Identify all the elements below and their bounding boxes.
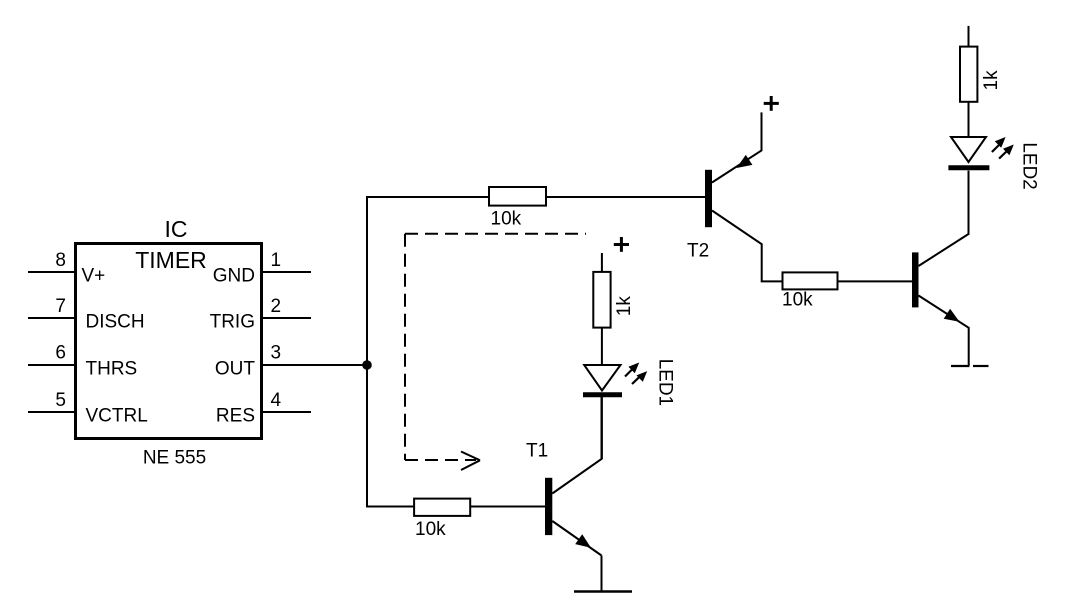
pin 3 OUT wire bbox=[261, 364, 367, 366]
svg-text:GND: GND bbox=[213, 266, 255, 287]
resistor R5 1k (LED2 branch) bbox=[960, 47, 977, 102]
R3 value 1k (rotated) bbox=[614, 296, 635, 317]
op-amp/IC U1 NE555 body box bbox=[76, 244, 262, 439]
IC label IC bbox=[165, 216, 188, 242]
R5 value 1k (rotated) bbox=[981, 70, 1002, 91]
T1 emitter wire bbox=[552, 521, 601, 556]
wire bottom horizontal to T1 base bbox=[366, 506, 545, 508]
pin 8 name V+ bbox=[82, 266, 106, 287]
resistor R2 10k (bottom) bbox=[414, 499, 470, 516]
pin 2 name TRIG bbox=[210, 312, 255, 333]
pin 5 name VCTRL bbox=[86, 406, 148, 427]
T3 emitter arrow bbox=[944, 309, 960, 322]
wire top horizontal to T2 base bbox=[366, 196, 705, 198]
LED1 label (rotated) bbox=[655, 359, 676, 407]
resistor R4 10k (T2 collector) bbox=[783, 272, 838, 289]
resistor R1 10k (top) bbox=[489, 187, 546, 206]
svg-text:2: 2 bbox=[271, 296, 282, 317]
pin 7 stub bbox=[28, 317, 76, 319]
pin 3 name OUT bbox=[215, 359, 256, 380]
LED2 emission arrow 2 bbox=[999, 145, 1014, 159]
ground under T1 bbox=[574, 590, 632, 593]
LED1 emission arrow 2 bbox=[632, 371, 647, 384]
T2 emitter wire bbox=[712, 112, 762, 182]
LED2 triangle bbox=[951, 137, 986, 162]
T1 emitter vertical wire bbox=[601, 556, 603, 593]
svg-text:LED2: LED2 bbox=[1019, 142, 1040, 190]
svg-text:V+: V+ bbox=[82, 266, 106, 287]
dashed path arrowhead bbox=[461, 452, 480, 471]
wire R5 to LED2 bbox=[968, 102, 970, 138]
svg-text:1k: 1k bbox=[981, 70, 1002, 91]
T2 label bbox=[687, 240, 709, 261]
T2 collector wire bbox=[712, 211, 782, 282]
plus supply symbol above LED1 branch bbox=[614, 237, 629, 252]
pin 7 name DISCH bbox=[86, 312, 145, 333]
pin 4 number bbox=[271, 390, 282, 411]
transistor T3 bar bbox=[912, 252, 919, 307]
pin 2 stub bbox=[261, 317, 311, 319]
LED2 cathode bar bbox=[948, 165, 989, 170]
svg-text:T1: T1 bbox=[526, 441, 548, 462]
svg-text:10k: 10k bbox=[415, 519, 446, 540]
svg-text:T2: T2 bbox=[687, 240, 709, 261]
wire vertical from node bbox=[366, 196, 368, 508]
svg-text:TRIG: TRIG bbox=[210, 312, 255, 333]
pin 4 stub bbox=[261, 411, 311, 413]
T3 emitter wire bbox=[919, 296, 969, 367]
T3 collector wire bbox=[919, 234, 969, 266]
pin 1 stub bbox=[261, 271, 311, 273]
transistor T2 bar bbox=[705, 170, 712, 227]
svg-text:TIMER: TIMER bbox=[135, 247, 207, 273]
svg-text:5: 5 bbox=[55, 390, 66, 411]
LED1 cathode bar bbox=[583, 392, 622, 397]
pin 6 stub bbox=[28, 364, 76, 366]
R4 value 10k bbox=[782, 290, 813, 311]
pin 1 name GND bbox=[213, 266, 255, 287]
resistor R3 1k (LED1 branch) bbox=[593, 272, 610, 328]
wire top stub above LED2 1k bbox=[968, 26, 970, 47]
svg-text:OUT: OUT bbox=[215, 359, 256, 380]
svg-text:6: 6 bbox=[55, 343, 66, 364]
IC value NE 555 bbox=[143, 448, 206, 469]
svg-text:DISCH: DISCH bbox=[86, 312, 145, 333]
svg-text:7: 7 bbox=[55, 296, 66, 317]
pin 5 stub bbox=[28, 411, 76, 413]
svg-text:10k: 10k bbox=[782, 290, 813, 311]
svg-text:VCTRL: VCTRL bbox=[86, 406, 148, 427]
wire LED2 to T3 collector bbox=[968, 171, 970, 235]
svg-text:THRS: THRS bbox=[86, 359, 138, 380]
dashed feedback path bbox=[405, 234, 586, 460]
pin 3 number bbox=[271, 343, 282, 364]
wire LED1 to T1 collector bbox=[601, 397, 603, 459]
wire R4 to T3 base bbox=[838, 280, 913, 282]
R2 value 10k bbox=[415, 519, 446, 540]
plus supply symbol above T2 bbox=[764, 96, 779, 111]
LED1 emission arrow 1 bbox=[625, 363, 639, 377]
pin 6 number bbox=[55, 343, 66, 364]
LED1 triangle bbox=[584, 365, 620, 391]
LED2 label (rotated) bbox=[1019, 142, 1040, 190]
svg-text:RES: RES bbox=[216, 406, 255, 427]
svg-text:8: 8 bbox=[55, 250, 66, 271]
T1 collector wire bbox=[552, 397, 601, 494]
node OUT junction dot bbox=[362, 360, 372, 370]
ground under T3 (two segments) bbox=[951, 365, 989, 367]
transistor T1 bar bbox=[545, 478, 552, 535]
T1 label bbox=[526, 441, 548, 462]
svg-text:3: 3 bbox=[271, 343, 282, 364]
T1 emitter arrow bbox=[575, 534, 591, 548]
svg-text:IC: IC bbox=[165, 216, 188, 242]
wire plus to R3 bbox=[601, 253, 603, 272]
pin 2 number bbox=[271, 296, 282, 317]
svg-text:4: 4 bbox=[271, 390, 282, 411]
svg-text:LED1: LED1 bbox=[655, 359, 676, 407]
svg-text:1: 1 bbox=[271, 250, 282, 271]
pin 5 number bbox=[55, 390, 66, 411]
svg-text:1k: 1k bbox=[614, 296, 635, 317]
pin 1 number bbox=[271, 250, 282, 271]
pin 8 stub bbox=[28, 271, 76, 273]
wire R3 to LED1 bbox=[601, 328, 603, 366]
IC label TIMER bbox=[135, 247, 207, 273]
R1 value 10k bbox=[491, 209, 522, 230]
pin 8 number bbox=[55, 250, 66, 271]
pin 7 number bbox=[55, 296, 66, 317]
pin 6 name THRS bbox=[86, 359, 138, 380]
pin 4 name RES bbox=[216, 406, 255, 427]
T2 emitter arrow (PNP, points to bar) bbox=[737, 155, 753, 168]
LED2 emission arrow 1 bbox=[992, 137, 1006, 152]
svg-text:NE 555: NE 555 bbox=[143, 448, 206, 469]
svg-text:10k: 10k bbox=[491, 209, 522, 230]
